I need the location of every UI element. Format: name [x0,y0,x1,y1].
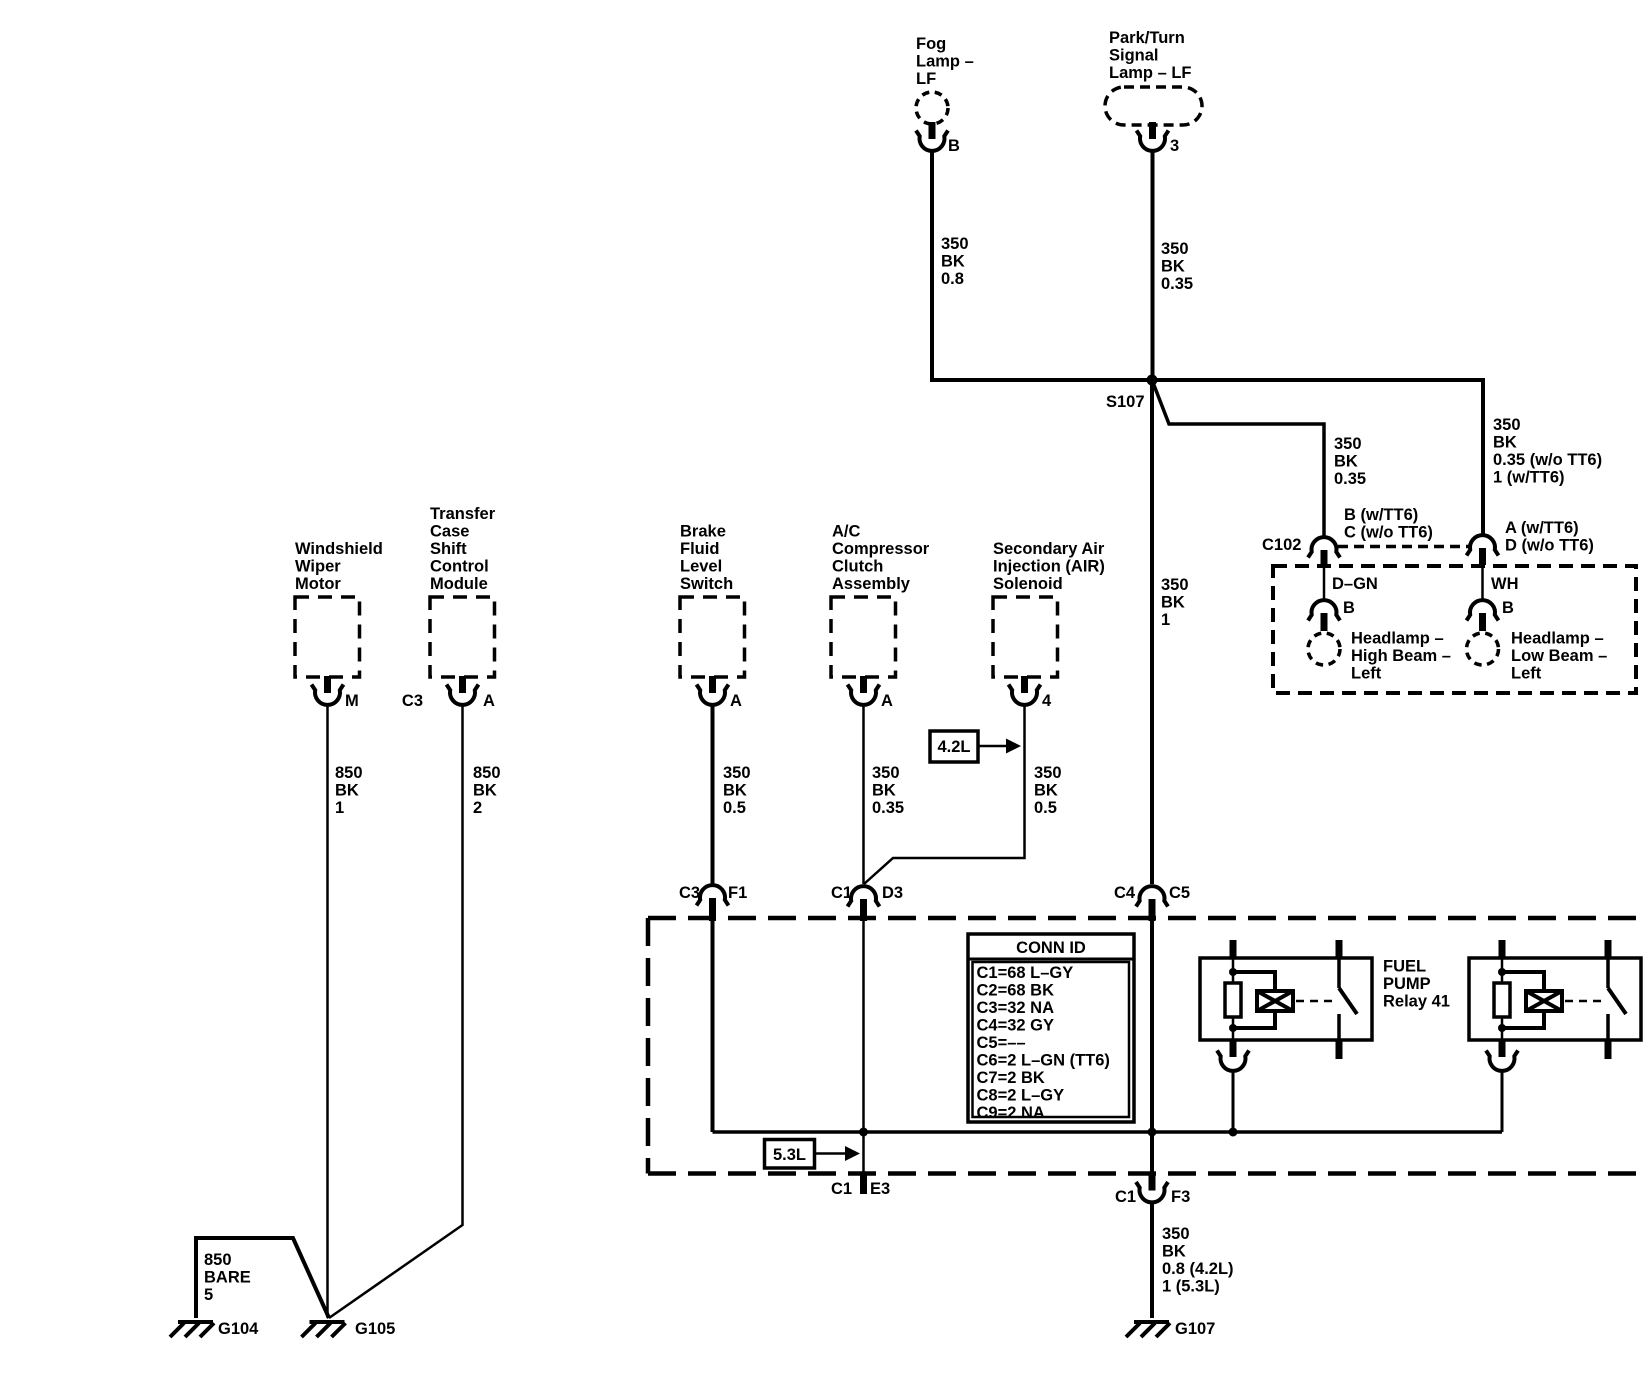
svg-text:350: 350 [941,235,969,253]
connector C102 pin B/C (left) [1308,537,1340,557]
svg-text:4: 4 [1042,692,1052,710]
svg-text:0.8: 0.8 [941,270,964,288]
svg-text:1 (w/TT6): 1 (w/TT6) [1493,469,1565,487]
component: Brake Fluid Level Switch (dashed box) [680,597,745,677]
svg-text:350: 350 [1162,1225,1190,1243]
svg-text:850: 850 [335,764,363,782]
headlamp assembly (dashed box) [1273,566,1636,693]
svg-text:BARE: BARE [204,1269,251,1287]
svg-text:C3: C3 [402,692,423,710]
svg-text:BK: BK [723,782,747,800]
svg-text:Fog: Fog [916,35,946,53]
svg-text:C5: C5 [1169,884,1190,902]
svg-text:0.5: 0.5 [1034,799,1057,817]
wire: transfer case A to G105 (850 BK 2) [329,706,463,1318]
svg-text:C3=32 NA: C3=32 NA [977,999,1055,1017]
wire: A/C clutch A to C1/D3 (350 BK 0.35) [862,706,865,884]
fuel pump relay 41 (left) [1200,940,1372,1132]
junction dot at relay 1 wire and ground bus [1229,1128,1238,1137]
wire: G104 bare ground strap (850 BARE 5) [196,1238,329,1318]
svg-text:350: 350 [1493,416,1521,434]
connector pin B headlamp low beam [1467,600,1499,620]
svg-text:Shift: Shift [430,540,467,558]
headlamp low beam bulb (dashed circle) [1467,633,1499,665]
svg-text:D3: D3 [882,884,903,902]
connector C102 body (dashed line) [1338,545,1469,549]
connector pin A of A/C Compressor Clutch Assembly [848,676,880,705]
junction dot at A/C wire and ground bus [859,1128,868,1137]
component: Windshield Wiper Motor (dashed box) [295,597,360,677]
connector pin 3 of park/turn lamp [1137,122,1169,151]
svg-text:C9=2 NA: C9=2 NA [977,1104,1045,1122]
svg-text:4.2L: 4.2L [937,738,970,756]
fuel pump relay 41 (right) [1469,940,1641,1132]
svg-text:BK: BK [1334,453,1358,471]
connector C102 pin A/D (right) [1467,535,1499,555]
svg-text:Assembly: Assembly [832,575,911,593]
junction dot at trunk and ground bus [1148,1128,1157,1137]
svg-text:BK: BK [1493,434,1517,452]
svg-text:Level: Level [680,558,722,576]
svg-text:A: A [881,692,893,710]
svg-text:Low Beam –: Low Beam – [1511,647,1607,665]
headlamp high beam bulb (dashed circle) [1308,633,1340,665]
svg-text:G104: G104 [218,1320,259,1338]
connector pin 4 of Secondary Air Injection (AIR) Solenoid [1009,676,1041,705]
svg-text:C102: C102 [1262,536,1301,554]
svg-text:Compressor: Compressor [832,540,930,558]
svg-text:2: 2 [473,799,482,817]
connector pin B of fog lamp [916,122,948,151]
svg-text:0.35 (w/o TT6): 0.35 (w/o TT6) [1493,451,1602,469]
svg-text:BK: BK [473,782,497,800]
svg-text:G107: G107 [1175,1320,1215,1338]
svg-text:M: M [345,692,359,710]
callout 4.2L box with arrow [930,731,978,762]
svg-text:CONN ID: CONN ID [1016,939,1086,957]
wire: brake fluid inside box to ground bus [711,921,715,1132]
wire D-GN to high beam [1323,565,1326,600]
svg-text:A: A [730,692,742,710]
svg-text:Lamp – LF: Lamp – LF [1109,64,1192,82]
svg-text:Transfer: Transfer [430,505,496,523]
svg-text:850: 850 [204,1251,232,1269]
callout 5.3L box with arrow [765,1140,815,1169]
svg-text:Clutch: Clutch [832,558,883,576]
svg-text:Park/Turn: Park/Turn [1109,29,1185,47]
svg-text:C6=2 L–GN (TT6): C6=2 L–GN (TT6) [977,1052,1110,1070]
underhood electrical center (big dashed box) [648,918,1640,1174]
component: Secondary Air Injection (AIR) Solenoid (dashed box) [993,597,1058,677]
svg-text:5.3L: 5.3L [773,1146,806,1164]
wire: trunk down from S107 [1150,380,1154,884]
svg-text:C3: C3 [679,884,700,902]
svg-text:High Beam –: High Beam – [1351,647,1451,665]
svg-text:B (w/TT6): B (w/TT6) [1344,506,1418,524]
svg-text:F3: F3 [1171,1188,1190,1206]
component: park/turn lamp (dashed stadium) [1105,87,1202,125]
svg-text:C (w/o TT6): C (w/o TT6) [1344,524,1433,542]
svg-text:0.35: 0.35 [1161,275,1193,293]
svg-text:E3: E3 [870,1180,890,1198]
svg-text:B: B [1343,599,1355,617]
svg-text:350: 350 [1334,435,1362,453]
svg-text:A (w/TT6): A (w/TT6) [1505,519,1579,537]
svg-text:Control: Control [430,558,489,576]
svg-text:BK: BK [1162,1243,1186,1261]
svg-text:BK: BK [941,253,965,271]
svg-text:Secondary Air: Secondary Air [993,540,1105,558]
connector pin B headlamp high beam [1308,600,1340,620]
svg-text:Injection (AIR): Injection (AIR) [993,558,1105,576]
component: A/C Compressor Clutch Assembly (dashed box) [831,597,896,677]
svg-text:C5=––: C5=–– [977,1034,1026,1052]
svg-text:B: B [1502,599,1514,617]
svg-text:1: 1 [335,799,344,817]
svg-text:1 (5.3L): 1 (5.3L) [1162,1278,1220,1296]
svg-text:0.35: 0.35 [1334,470,1366,488]
svg-text:C1=68 L–GY: C1=68 L–GY [977,964,1074,982]
svg-text:850: 850 [473,764,501,782]
connector pin A of Brake Fluid Level Switch [697,676,729,705]
ground G105 [302,1322,346,1337]
svg-text:Headlamp –: Headlamp – [1511,630,1604,648]
svg-text:C7=2 BK: C7=2 BK [977,1069,1045,1087]
svg-text:S107: S107 [1106,393,1145,411]
svg-text:C8=2 L–GY: C8=2 L–GY [977,1087,1065,1105]
svg-text:F1: F1 [728,884,747,902]
svg-text:Case: Case [430,523,469,541]
svg-text:C2=68 BK: C2=68 BK [977,982,1055,1000]
svg-text:C4: C4 [1114,884,1136,902]
svg-text:350: 350 [1161,576,1189,594]
svg-text:FUEL: FUEL [1383,958,1426,976]
svg-text:350: 350 [1034,764,1062,782]
svg-text:350: 350 [1161,240,1189,258]
svg-text:BK: BK [1161,258,1185,276]
svg-text:1: 1 [1161,611,1170,629]
component: Transfer Case Shift Control Module (dashed box) [430,597,495,677]
wire WH to low beam [1481,565,1484,600]
svg-text:WH: WH [1491,575,1519,593]
wire: AIR solenoid 4 to C1/D3 (350 BK 0.5) [864,706,1025,884]
svg-text:Wiper: Wiper [295,558,341,576]
CONN ID table [968,934,1134,1122]
svg-text:BK: BK [1034,782,1058,800]
svg-text:Module: Module [430,575,488,593]
svg-text:0.8 (4.2L): 0.8 (4.2L) [1162,1260,1234,1278]
splice S107 junction dot [1147,375,1158,386]
svg-text:Solenoid: Solenoid [993,575,1063,593]
svg-text:A/C: A/C [832,523,861,541]
svg-text:C4=32 GY: C4=32 GY [977,1017,1055,1035]
svg-text:350: 350 [723,764,751,782]
wire: park/turn lamp 3 to S107 (350 BK 0.35) [1151,152,1155,380]
svg-text:Fluid: Fluid [680,540,719,558]
svg-text:5: 5 [204,1286,213,1304]
connector pin M of Windshield Wiper Motor [312,676,344,705]
wire: wiper motor M to G105 (850 BK 1) [326,706,329,1318]
svg-text:BK: BK [872,782,896,800]
svg-text:350: 350 [872,764,900,782]
svg-text:BK: BK [1161,594,1185,612]
wire: fog lamp B to S107 (350 BK 0.8) [932,152,1148,380]
svg-text:C1: C1 [1115,1188,1136,1206]
svg-text:0.5: 0.5 [723,799,746,817]
svg-text:C1: C1 [831,884,852,902]
wire: brake fluid switch A to C3/F1 (350 BK 0.5) [711,706,715,884]
wire: S107 branch to C102 pin B/C (350 BK 0.35) [1152,380,1324,536]
wire: trunk right from S107 to C102 pin A/D [1152,380,1483,534]
svg-text:Left: Left [1351,665,1382,683]
component: fog lamp bulb (dashed circle) [916,92,948,124]
svg-text:Lamp –: Lamp – [916,53,974,71]
svg-text:Windshield: Windshield [295,540,383,558]
svg-text:Switch: Switch [680,575,733,593]
ground G104 [170,1322,214,1337]
ground G107 [1126,1322,1170,1337]
svg-text:D (w/o TT6): D (w/o TT6) [1505,537,1594,555]
connector pin A of Transfer Case Shift Control Module [447,676,479,705]
svg-text:0.35: 0.35 [872,799,904,817]
svg-text:Relay 41: Relay 41 [1383,993,1450,1011]
svg-text:Brake: Brake [680,523,726,541]
svg-text:LF: LF [916,70,936,88]
wire: C1/F3 to G107 (350 BK) [1150,1204,1154,1318]
svg-text:D–GN: D–GN [1332,575,1378,593]
svg-text:PUMP: PUMP [1383,975,1431,993]
svg-text:3: 3 [1170,137,1179,155]
svg-text:G105: G105 [355,1320,395,1338]
wire: A/C wire inside box to C1/E3 [862,921,865,1175]
svg-text:A: A [483,692,495,710]
svg-text:BK: BK [335,782,359,800]
svg-text:Left: Left [1511,665,1542,683]
svg-text:Signal: Signal [1109,47,1159,65]
svg-text:Motor: Motor [295,575,341,593]
svg-text:C1: C1 [831,1180,852,1198]
wire: ground bus horizontal [713,1130,1503,1134]
svg-text:Headlamp –: Headlamp – [1351,630,1444,648]
svg-text:B: B [948,137,960,155]
wire: trunk inside box to C1/F3 [1150,921,1154,1174]
